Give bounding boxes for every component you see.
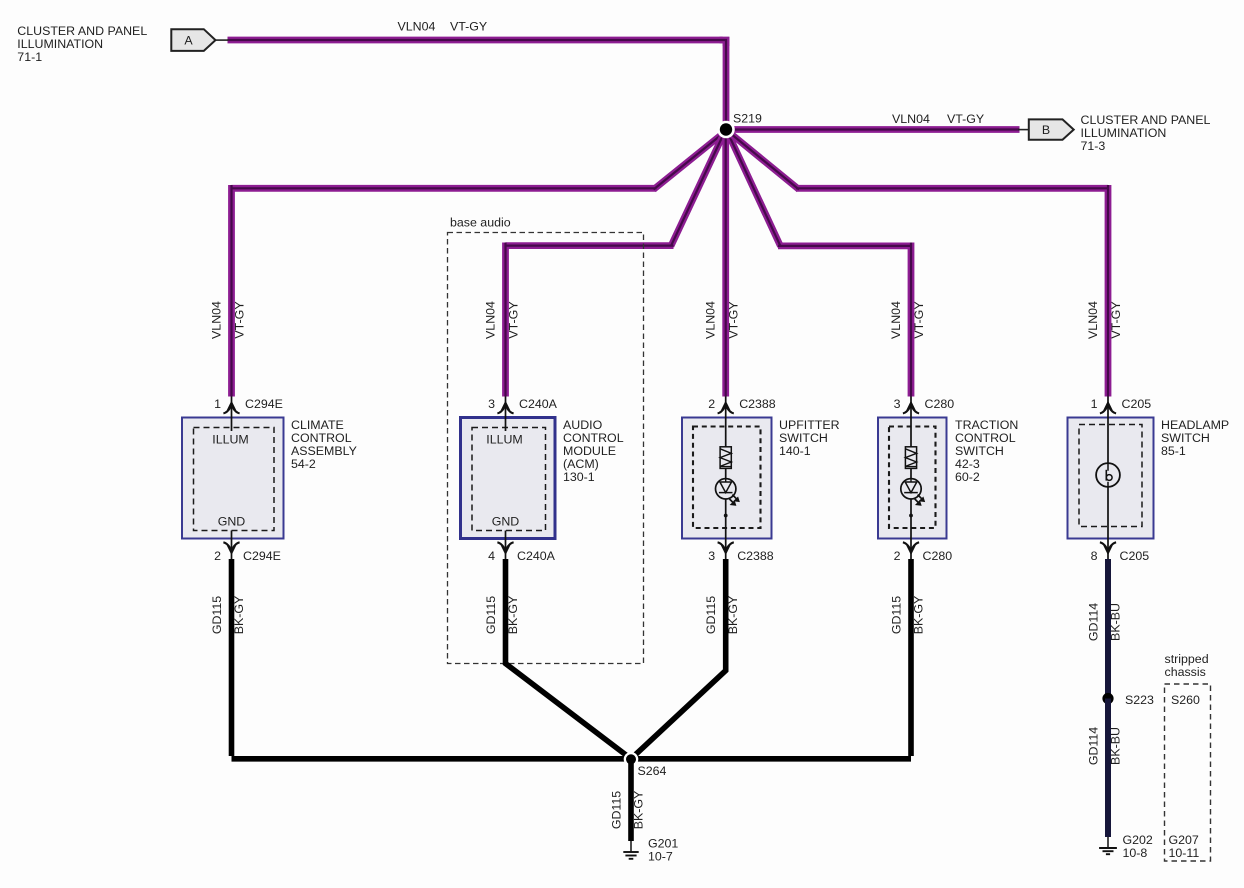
svg-text:VLN04: VLN04 [892,112,930,126]
svg-text:VT-GY: VT-GY [233,301,247,338]
connector C294E pin 2 (bottom of climate) [214,542,281,563]
wire VLN04 VT-GY corner at A-wire [720,40,727,46]
svg-text:71-1: 71-1 [17,50,42,64]
inner dashed component outline: acm [472,428,546,531]
resistor element in traction [905,447,916,469]
connector C240A pin 4 (bottom of acm) [488,542,556,563]
inner dashed component outline: traction [889,427,936,529]
pin line out of acm GND terminal [505,531,507,560]
svg-text:GND: GND [218,515,246,529]
svg-text:VLN04: VLN04 [484,301,498,339]
svg-text:G207: G207 [1169,833,1199,847]
svg-text:BK-GY: BK-GY [726,596,740,635]
svg-text:UPFITTER: UPFITTER [779,418,840,432]
svg-text:GND: GND [492,515,520,529]
illumination LED lamp in upfitter [716,479,740,506]
lamp element in headlamp [1096,463,1120,487]
wire GD114 BK-BU from headlamp C205 pin 8 to splice S223 [1105,559,1111,699]
wire GD115 BK-GY from ACM C240A pin 4 to splice S264 [506,559,632,759]
svg-text:GD115: GD115 [210,596,224,634]
svg-text:C294E: C294E [243,549,281,563]
component box: climate [182,418,284,539]
label AUDIO CONTROL MODULE (ACM) 130-1 [563,418,624,484]
svg-text:2: 2 [894,549,901,563]
component box: traction [878,418,947,539]
svg-text:TRACTION: TRACTION [955,418,1018,432]
pin line through traction [910,397,912,560]
svg-text:85-1: 85-1 [1161,444,1186,458]
pin line out of climate GND terminal [231,531,233,560]
connector B flag [1018,119,1074,139]
inner dashed component outline: headlamp [1079,425,1142,527]
label G202 10-8 [1123,833,1153,860]
svg-text:S223: S223 [1125,693,1154,707]
label G207 10-11 [1169,833,1200,860]
svg-text:C294E: C294E [245,397,283,411]
svg-text:HEADLAMP: HEADLAMP [1161,418,1229,432]
label G201 10-7 [648,837,678,864]
wire GD115 BK-GY horizontal bus to splice S264 [232,756,912,762]
svg-text:71-3: 71-3 [1081,139,1106,153]
svg-text:10-11: 10-11 [1169,846,1200,860]
svg-text:CLIMATE: CLIMATE [291,418,344,432]
label CLIMATE CONTROL ASSEMBLY 54-2 [291,418,357,471]
svg-text:10-7: 10-7 [648,850,673,864]
connector C2388 pin 2 (top of upfitter) [708,397,776,413]
label cluster and panel illumination 71-3 [1081,113,1211,153]
svg-text:10-8: 10-8 [1123,846,1148,860]
svg-text:C280: C280 [923,549,953,563]
svg-text:C2388: C2388 [739,397,776,411]
component box: headlamp [1068,418,1154,539]
svg-text:VT-GY: VT-GY [1109,301,1123,338]
junction dot in upfitter [724,514,728,518]
svg-text:BK-GY: BK-GY [232,596,246,635]
wire VLN04 VT-GY branch S219 to upfitter switch (C2388 pin 2) [722,130,729,397]
svg-text:BK-GY: BK-GY [632,791,646,830]
svg-text:CLUSTER AND PANEL: CLUSTER AND PANEL [17,24,147,38]
wire VLN04 VT-GY branch S219 to audio control module (C240A pin 3) [506,131,726,397]
svg-text:chassis: chassis [1165,665,1206,679]
svg-text:C205: C205 [1122,397,1152,411]
svg-text:base audio: base audio [450,216,511,230]
pin line into climate ILLUM terminal [231,397,233,432]
label HEADLAMP SWITCH 85-1 [1161,418,1229,458]
svg-text:BK-BU: BK-BU [1109,603,1123,641]
svg-text:AUDIO: AUDIO [563,418,603,432]
svg-text:2: 2 [708,397,715,411]
svg-text:BK-GY: BK-GY [506,596,520,635]
connector C205 pin 8 (bottom of headlamp) [1091,542,1150,563]
label VLN04 VT-GY wire to B [892,112,984,126]
splice S219 [717,121,735,139]
svg-text:60-2: 60-2 [955,470,980,484]
svg-text:ILLUMINATION: ILLUMINATION [1081,126,1167,140]
svg-text:GD115: GD115 [484,596,498,634]
wire VLN04 VT-GY from connector A to splice S219 [228,37,727,130]
wire VLN04 VT-GY branch S219 to traction control switch (C280 pin 3) [727,131,911,397]
component box: acm [461,418,556,539]
svg-text:GD115: GD115 [610,791,624,829]
svg-text:8: 8 [1091,549,1098,563]
svg-text:VT-GY: VT-GY [450,20,487,34]
connector A flag [171,29,228,51]
svg-text:CONTROL: CONTROL [291,431,352,445]
wire VLN04 VT-GY branch S219 to headlamp switch (C205 pin 1) [728,131,1109,397]
connector C280 pin 2 (bottom of traction) [894,542,953,563]
inner dashed component outline: upfitter [693,427,761,529]
dashed enclosure: base audio [448,216,644,664]
svg-text:GD114: GD114 [1087,603,1101,641]
svg-text:MODULE: MODULE [563,444,616,458]
svg-text:SWITCH: SWITCH [955,444,1004,458]
label UPFITTER SWITCH 140-1 [779,418,840,458]
resistor element in upfitter [720,447,731,469]
wire VLN04 VT-GY branch S219 to climate control (C294E pin 1) [232,131,727,397]
svg-text:VT-GY: VT-GY [727,301,741,338]
svg-text:GD114: GD114 [1087,727,1101,765]
svg-text:SWITCH: SWITCH [779,431,828,445]
connector C205 pin 1 (top of headlamp) [1091,397,1152,413]
svg-text:stripped: stripped [1165,652,1209,666]
svg-text:ILLUM: ILLUM [212,433,249,447]
label VLN04 VT-GY top wire [398,20,488,34]
svg-text:ASSEMBLY: ASSEMBLY [291,444,357,458]
svg-text:C280: C280 [925,397,955,411]
svg-text:140-1: 140-1 [779,444,811,458]
wire GD114 BK-BU from S223 to ground G202 [1105,699,1111,838]
svg-text:1: 1 [1091,397,1098,411]
wire GD115 BK-GY from traction C280 pin 2 down [908,559,914,756]
illumination LED lamp in traction [901,479,925,506]
wire GD115 BK-GY from climate C294E pin 2 down [229,559,235,756]
svg-text:SWITCH: SWITCH [1161,431,1210,445]
svg-text:VLN04: VLN04 [210,301,224,339]
svg-text:ILLUMINATION: ILLUMINATION [17,37,103,51]
svg-text:C240A: C240A [517,549,556,563]
svg-text:ILLUM: ILLUM [486,433,523,447]
svg-text:BK-BU: BK-BU [1109,727,1123,765]
svg-text:GD115: GD115 [890,596,904,634]
splice S223 [1102,693,1113,704]
svg-text:C2388: C2388 [737,549,774,563]
svg-text:A: A [184,34,193,48]
svg-text:3: 3 [488,397,495,411]
connector C280 pin 3 (top of traction) [894,397,955,413]
svg-text:CLUSTER AND PANEL: CLUSTER AND PANEL [1081,113,1211,127]
pin line through upfitter [725,397,727,560]
svg-text:3: 3 [894,397,901,411]
inner dashed component outline: climate [194,428,275,531]
svg-text:G202: G202 [1123,833,1153,847]
connector C2388 pin 3 (bottom of upfitter) [708,542,774,563]
svg-text:S260: S260 [1171,693,1200,707]
label cluster and panel illumination 71-1 [17,24,147,64]
label TRACTION CONTROL SWITCH 42-3 60-2 [955,418,1018,484]
svg-text:130-1: 130-1 [563,470,595,484]
svg-text:VT-GY: VT-GY [507,301,521,338]
wire GD115 BK-GY from upfitter C2388 pin 3 to splice S264 [631,559,726,759]
svg-text:3: 3 [708,549,715,563]
svg-text:C205: C205 [1120,549,1150,563]
component box: upfitter [682,418,772,539]
splice S264 [624,752,639,767]
svg-text:S219: S219 [733,112,762,126]
svg-text:1: 1 [214,397,221,411]
svg-text:2: 2 [214,549,221,563]
svg-text:VLN04: VLN04 [398,20,436,34]
svg-text:S264: S264 [638,764,667,778]
junction dot in traction [909,514,913,518]
ground G202 [1099,837,1117,854]
ground G201 [623,841,638,859]
svg-text:VT-GY: VT-GY [912,301,926,338]
svg-text:CONTROL: CONTROL [955,431,1016,445]
svg-text:VT-GY: VT-GY [947,112,984,126]
svg-text:(ACM): (ACM) [563,457,599,471]
wire VLN04 VT-GY from splice S219 to connector B [726,126,1020,133]
dashed enclosure: stripped chassis [1165,684,1211,861]
svg-text:VLN04: VLN04 [704,301,718,339]
svg-text:4: 4 [488,549,495,563]
svg-text:54-2: 54-2 [291,457,316,471]
connector C294E pin 1 (top of climate) [214,397,283,413]
svg-text:VLN04: VLN04 [1086,301,1100,339]
connector C240A pin 3 (top of acm) [488,397,558,413]
svg-text:BK-GY: BK-GY [912,596,926,635]
svg-text:B: B [1042,123,1050,137]
svg-text:42-3: 42-3 [955,457,980,471]
svg-text:CONTROL: CONTROL [563,431,624,445]
svg-text:C240A: C240A [519,397,558,411]
svg-text:G201: G201 [648,837,678,851]
svg-text:VLN04: VLN04 [889,301,903,339]
svg-text:GD115: GD115 [704,596,718,634]
label stripped chassis [1165,652,1209,679]
pin line through headlamp [1107,397,1109,560]
wire GD115 BK-GY from S264 to ground G201 [628,759,634,841]
pin line into acm ILLUM terminal [505,397,507,432]
